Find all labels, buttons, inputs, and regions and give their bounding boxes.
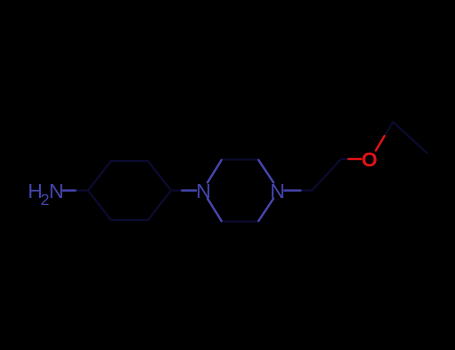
svg-text:N: N <box>196 180 211 203</box>
svg-text:O: O <box>362 149 378 172</box>
svg-text:N: N <box>49 180 64 203</box>
svg-text:N: N <box>270 180 285 203</box>
